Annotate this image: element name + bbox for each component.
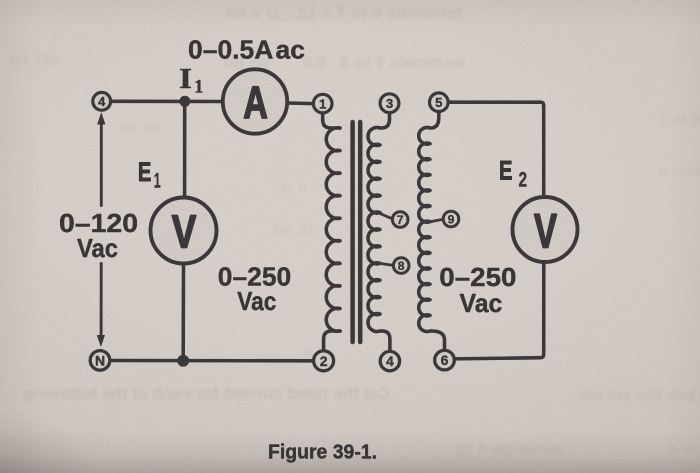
transformer secondary winding B (tapped) — [419, 127, 430, 331]
tap terminal 8 — [393, 258, 409, 274]
transformer core — [353, 122, 361, 342]
wire: tap to terminal 7 — [380, 214, 392, 219]
bleed-through fragment mid-left — [95, 120, 160, 137]
bleed-through text row 2 — [130, 53, 465, 73]
wire: secondary winding B to terminal 6 — [430, 331, 445, 350]
wire: tap to terminal 8 — [380, 263, 393, 265]
voltmeter V1 — [151, 198, 217, 264]
terminal 2 (primary bottom) — [314, 351, 334, 371]
wire: bottom bus, terminal N to terminal 2 — [110, 359, 314, 363]
transformer secondary winding A (center tapped) — [368, 127, 380, 331]
wire: terminal 1 down into primary winding — [323, 113, 340, 128]
terminal 4 (secondary A bottom) — [380, 351, 399, 370]
bleed-through corner bottom right — [620, 442, 700, 460]
terminal 6 (secondary B bottom) — [435, 350, 455, 370]
wire: terminal 5 down into secondary winding B — [430, 112, 439, 129]
wire: tap to terminal 9 — [430, 219, 443, 222]
wire: primary winding to terminal 2 — [324, 331, 340, 351]
wire: terminal 3 down into secondary winding A — [380, 113, 390, 128]
junction dot at I1 node — [179, 96, 190, 107]
terminal 5 (secondary B top) — [430, 93, 449, 112]
terminal 4 (line input) — [93, 92, 111, 110]
wire: terminal 5 right then down to voltmeter V2 — [448, 102, 544, 197]
junction dot at bottom bus — [177, 355, 189, 367]
arrowhead up (at terminal 4) — [97, 112, 105, 125]
bleed-through fragment center faint 2 — [205, 222, 315, 239]
bleed-through sentence bottom — [12, 384, 390, 404]
arrowhead down (at terminal N) — [97, 335, 105, 347]
bleed-through fragment above bottom wire — [218, 344, 333, 360]
tap terminal 7 — [392, 212, 408, 228]
arrow shaft upper (0-120 Vac arrow) — [100, 122, 103, 206]
bleed-through fragment right margin 2 — [575, 163, 700, 181]
wire: secondary winding A to bottom terminal 4 — [380, 331, 390, 351]
arrow shaft lower — [100, 264, 103, 340]
bleed-through fragment right margin 1 — [570, 112, 700, 130]
ammeter A — [223, 69, 287, 133]
wire: I1 junction down to voltmeter V1 — [183, 101, 187, 197]
voltmeter V2 — [513, 197, 578, 262]
bleed-through fragment near caption — [398, 442, 563, 460]
bleed-through fragment left edge — [0, 52, 60, 69]
terminal 3 (secondary A top) — [380, 94, 399, 113]
wire: terminal 4 to ammeter (through I1 junction) — [111, 100, 223, 104]
wire: ammeter to terminal 1 — [287, 101, 313, 105]
bleed-through fragment center faint — [200, 180, 320, 197]
bleed-through text row top — [150, 3, 462, 23]
wire: voltmeter V1 down to bottom junction — [181, 263, 185, 360]
terminal N (neutral) — [90, 351, 110, 371]
transformer primary winding — [326, 128, 340, 331]
tap terminal 9 — [443, 211, 459, 227]
wire: voltmeter V2 down then left to terminal 6 — [454, 262, 544, 359]
terminal 1 (primary top) — [313, 94, 332, 113]
bleed-through fragment bottom right — [510, 388, 695, 406]
